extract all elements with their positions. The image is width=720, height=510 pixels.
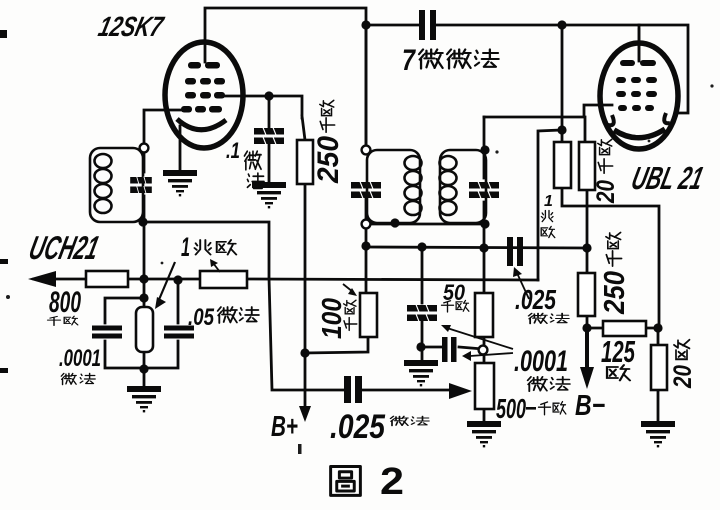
svg-text:20: 20 (669, 365, 697, 389)
svg-text:12SK7: 12SK7 (95, 11, 167, 43)
svg-text:1: 1 (544, 193, 553, 210)
svg-text:2: 2 (380, 461, 404, 503)
svg-text:500: 500 (496, 393, 526, 424)
svg-text:250: 250 (599, 271, 631, 315)
svg-text:7: 7 (402, 44, 416, 77)
svg-text:.0001: .0001 (514, 345, 568, 378)
svg-text:20: 20 (592, 180, 620, 204)
svg-text:B+: B+ (271, 411, 298, 443)
svg-text:.1: .1 (226, 138, 240, 163)
svg-text:1: 1 (181, 232, 190, 262)
svg-text:250: 250 (312, 136, 345, 184)
svg-text:B−: B− (575, 390, 605, 422)
svg-text:.0001: .0001 (59, 345, 101, 372)
svg-text:.025: .025 (515, 284, 556, 315)
svg-text:UBL 21: UBL 21 (628, 160, 707, 195)
svg-text:125: 125 (601, 334, 635, 369)
svg-text:100: 100 (316, 298, 347, 339)
svg-text:800: 800 (49, 286, 81, 319)
svg-text:.05: .05 (188, 304, 214, 331)
svg-text:UCH21: UCH21 (25, 230, 102, 266)
svg-text:.025: .025 (330, 408, 386, 446)
